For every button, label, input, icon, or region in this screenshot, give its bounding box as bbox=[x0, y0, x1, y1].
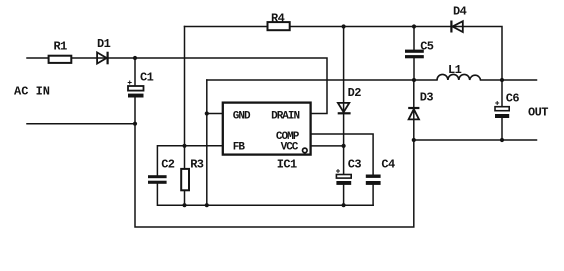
svg-text:D4: D4 bbox=[453, 5, 467, 19]
svg-text:R1: R1 bbox=[54, 39, 68, 53]
svg-text:D2: D2 bbox=[348, 86, 362, 100]
svg-text:C2: C2 bbox=[161, 157, 175, 171]
svg-text:VCC: VCC bbox=[281, 141, 299, 153]
svg-text:IC1: IC1 bbox=[277, 158, 297, 172]
svg-text:AC IN: AC IN bbox=[14, 84, 50, 98]
svg-text:C3: C3 bbox=[348, 157, 362, 171]
svg-text:D3: D3 bbox=[420, 91, 434, 105]
svg-text:D1: D1 bbox=[97, 37, 111, 51]
svg-text:OUT: OUT bbox=[528, 105, 548, 119]
svg-text:C1: C1 bbox=[140, 70, 154, 84]
svg-text:R3: R3 bbox=[190, 157, 204, 171]
svg-text:R4: R4 bbox=[271, 12, 285, 26]
svg-text:C4: C4 bbox=[381, 157, 395, 171]
svg-text:GND: GND bbox=[233, 110, 251, 122]
svg-text:L1: L1 bbox=[448, 63, 462, 77]
svg-text:DRAIN: DRAIN bbox=[271, 110, 299, 122]
svg-text:C6: C6 bbox=[506, 91, 520, 105]
svg-text:C5: C5 bbox=[420, 39, 434, 53]
svg-text:FB: FB bbox=[233, 141, 246, 153]
